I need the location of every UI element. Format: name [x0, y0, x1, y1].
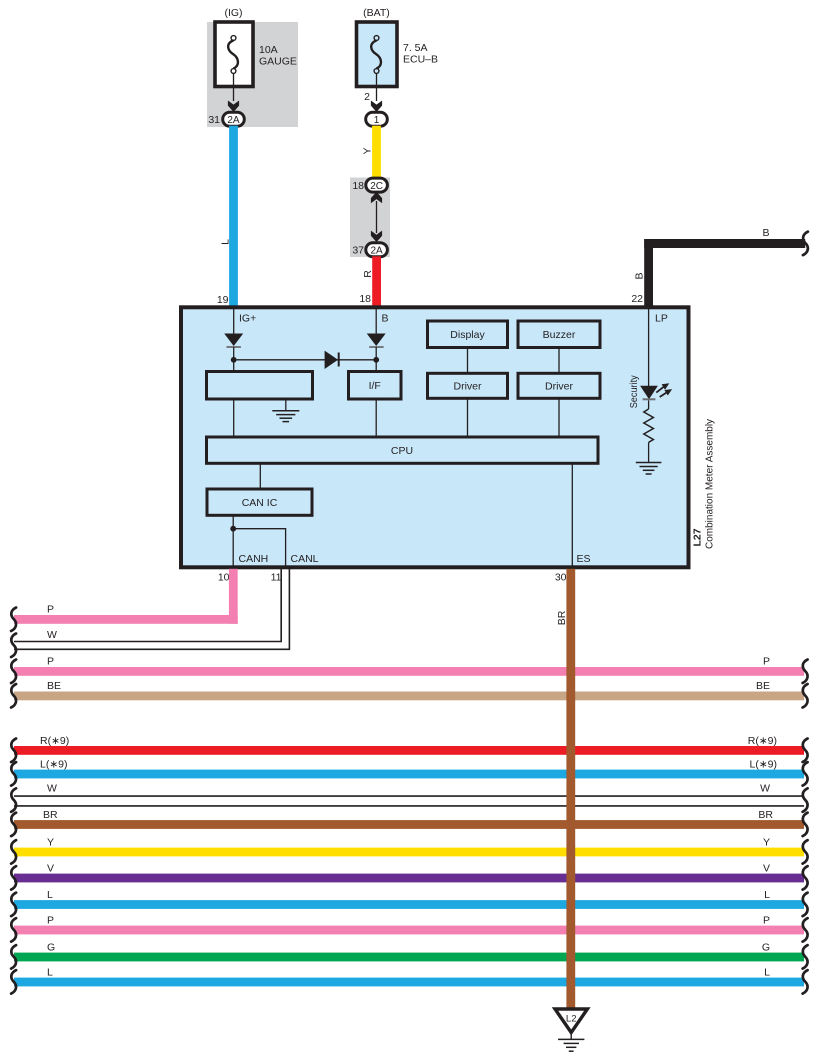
svg-text:LP: LP: [655, 313, 668, 325]
wire Buzzer to Driver: [558, 348, 560, 374]
svg-text:L(∗9): L(∗9): [40, 759, 67, 771]
squiggle right W2: [803, 788, 808, 812]
svg-text:B: B: [762, 227, 769, 239]
svg-text:P: P: [47, 915, 54, 927]
wire Y (yellow): [362, 126, 381, 178]
svg-text:18: 18: [352, 180, 364, 192]
block Buzzer: [518, 321, 600, 348]
squiggle left V: [11, 866, 16, 890]
wire W from pin 11 (elbow, white wire): [14, 569, 289, 649]
svg-text:CANL: CANL: [291, 553, 319, 565]
block CPU: [207, 437, 599, 463]
svg-text:10A: 10A: [259, 44, 278, 56]
wire IG+ to diode D1: [233, 307, 235, 334]
svg-text:18: 18: [359, 293, 371, 305]
svg-text:V: V: [763, 863, 770, 875]
svg-text:P: P: [47, 656, 54, 668]
wire P from pin 10 (elbow): [14, 569, 238, 624]
svg-text:10: 10: [218, 572, 230, 584]
svg-text:CAN IC: CAN IC: [242, 497, 278, 509]
wire Display to Driver: [467, 348, 469, 374]
diode D3: [325, 351, 339, 369]
squiggle right BE: [803, 684, 808, 708]
wire CPU to CAN IC: [259, 463, 261, 489]
wire LP to security LED: [648, 307, 650, 386]
svg-text:B: B: [634, 272, 646, 279]
svg-text:L: L: [764, 889, 770, 901]
svg-text:Combination Meter Assembly: Combination Meter Assembly: [705, 419, 716, 549]
svg-text:B: B: [382, 313, 389, 325]
wire P full width: [14, 656, 804, 676]
svg-text:W: W: [760, 783, 770, 795]
svg-text:BR: BR: [758, 809, 773, 821]
svg-text:W: W: [47, 629, 57, 641]
svg-text:2A: 2A: [227, 115, 240, 126]
squiggle right Y: [803, 840, 808, 864]
continuation squiggle right end of wire B: [803, 232, 808, 256]
svg-text:19: 19: [217, 294, 229, 306]
wire CPU to ES pin: [571, 463, 573, 567]
svg-text:Y: Y: [362, 147, 374, 154]
svg-text:L: L: [47, 967, 53, 979]
svg-text:2: 2: [364, 91, 370, 103]
ground symbol bottom: [558, 1033, 584, 1051]
svg-text:BE: BE: [47, 680, 61, 692]
security LED: [628, 375, 672, 409]
svg-text:2A: 2A: [370, 246, 383, 257]
diode D2: [367, 334, 386, 348]
wire regulator to CPU: [233, 399, 235, 437]
continuation squiggle left W pin11: [11, 634, 16, 658]
connector oval 1: [366, 112, 388, 126]
svg-text:W: W: [47, 783, 57, 795]
svg-text:Driver: Driver: [454, 381, 483, 393]
block CAN IC: [207, 489, 312, 515]
svg-text:CANH: CANH: [239, 553, 269, 565]
wire CAN IC down: [232, 515, 234, 567]
wire B (black) top right: [631, 227, 805, 308]
squiggle right P: [803, 660, 808, 684]
wire P full width (second): [14, 915, 804, 935]
wire L full width (third): [14, 967, 804, 987]
wire BR full width: [14, 809, 804, 829]
wire W full width (white): [14, 783, 804, 806]
squiggle left Y: [11, 840, 16, 864]
wire B pin to diode D2: [375, 307, 377, 334]
connector pin 31, oval 2A: [208, 112, 244, 126]
block I/F: [349, 372, 402, 400]
svg-text:BR: BR: [556, 610, 568, 625]
ground connector triangle L2: [555, 1009, 587, 1033]
svg-text:Driver: Driver: [545, 381, 574, 393]
svg-text:L: L: [764, 967, 770, 979]
svg-text:L2: L2: [566, 1014, 577, 1025]
svg-text:11: 11: [271, 572, 282, 584]
squiggle left BRw: [11, 813, 16, 837]
junction connector block 2C/2A: [350, 178, 390, 258]
squiggle left R: [11, 739, 16, 763]
svg-text:V: V: [47, 863, 54, 875]
wire R(*9) full width: [14, 735, 804, 755]
resistor for LED: [644, 400, 654, 462]
wire V full width: [14, 863, 804, 883]
fuse F1 (IG) 10A GAUGE: [207, 7, 298, 127]
svg-text:(IG): (IG): [224, 7, 242, 19]
block Driver (right): [518, 373, 600, 398]
svg-text:L27: L27: [692, 528, 704, 546]
squiggle right R: [803, 739, 808, 763]
svg-text:31: 31: [208, 114, 220, 126]
svg-text:GAUGE: GAUGE: [259, 56, 297, 68]
squiggle left W2: [11, 788, 16, 812]
svg-text:L(∗9): L(∗9): [750, 759, 777, 771]
squiggle right G: [803, 945, 808, 969]
wire L(*9) full width: [14, 759, 804, 779]
svg-text:Buzzer: Buzzer: [543, 329, 576, 341]
svg-text:I/F: I/F: [369, 380, 381, 392]
internal block (unlabeled regulator): [207, 372, 313, 400]
svg-text:1: 1: [374, 115, 380, 126]
wire from fuse F2, pin 2: [364, 73, 382, 112]
wire Driver to CPU: [467, 398, 469, 437]
squiggle left G: [11, 945, 16, 969]
continuation squiggle left P pin10: [11, 608, 16, 632]
fuse F2 (BAT) 7.5A ECU-B: [357, 7, 439, 87]
squiggle left L3: [11, 970, 16, 994]
combination meter assembly box L27: [181, 307, 716, 567]
wire L full width (second): [14, 889, 804, 909]
svg-text:BR: BR: [43, 809, 58, 821]
wire Y full width: [14, 837, 804, 857]
squiggle right L3: [803, 970, 808, 994]
svg-text:37: 37: [352, 245, 364, 257]
svg-text:7. 5A: 7. 5A: [403, 42, 428, 54]
squiggle left P2: [11, 918, 16, 942]
svg-text:Security: Security: [628, 375, 640, 409]
svg-text:BE: BE: [756, 680, 770, 692]
wire D1 down to internal rect: [233, 347, 235, 372]
squiggle right L2: [803, 893, 808, 917]
svg-text:P: P: [47, 604, 54, 616]
svg-text:R: R: [362, 270, 374, 278]
diode D1: [224, 334, 243, 348]
wire across with diode D3: [234, 359, 377, 361]
node junction right: [373, 357, 379, 363]
svg-text:CPU: CPU: [391, 445, 413, 457]
svg-text:R(∗9): R(∗9): [40, 735, 69, 747]
node junction left: [231, 357, 237, 363]
svg-text:G: G: [762, 942, 770, 954]
wire BR vertical from pin 30 to ground L2: [556, 569, 575, 1010]
wire R (red) to pin 18: [359, 256, 381, 308]
svg-text:L: L: [220, 239, 232, 245]
svg-text:G: G: [47, 942, 55, 954]
wire from fuse F1 to connector: [228, 73, 239, 112]
svg-text:22: 22: [631, 293, 643, 305]
svg-text:(BAT): (BAT): [363, 7, 390, 19]
wire G full width: [14, 942, 804, 962]
ground for LED: [636, 463, 662, 475]
wire CANL branch: [233, 529, 285, 567]
svg-text:R(∗9): R(∗9): [748, 735, 777, 747]
svg-text:Y: Y: [763, 837, 770, 849]
svg-text:2C: 2C: [370, 181, 383, 192]
node junction CAN: [230, 526, 236, 532]
svg-text:L: L: [47, 889, 53, 901]
squiggle left L2: [11, 893, 16, 917]
svg-text:P: P: [763, 656, 770, 668]
squiggle right L9: [803, 762, 808, 786]
svg-text:Y: Y: [47, 837, 54, 849]
svg-text:IG+: IG+: [239, 313, 256, 325]
squiggle right V: [803, 866, 808, 890]
wire I/F to CPU: [375, 399, 377, 437]
svg-text:Display: Display: [450, 329, 485, 341]
svg-text:30: 30: [555, 572, 567, 584]
svg-text:ECU–B: ECU–B: [403, 54, 438, 66]
wire BE full width: [14, 680, 804, 700]
wire D2 to I/F: [375, 347, 377, 372]
wire L (blue) from pin 31 to pin 19: [217, 126, 238, 308]
squiggle right BRw: [803, 813, 808, 837]
block Driver (left): [428, 373, 508, 398]
squiggle left BE: [11, 684, 16, 708]
wire Driver right to CPU: [558, 398, 560, 437]
block Display: [428, 321, 508, 348]
ground inside box (from regulator): [272, 399, 299, 422]
squiggle right P2: [803, 918, 808, 942]
squiggle left P: [11, 660, 16, 684]
svg-text:ES: ES: [577, 553, 591, 565]
svg-text:P: P: [763, 915, 770, 927]
squiggle left L9: [11, 762, 16, 786]
